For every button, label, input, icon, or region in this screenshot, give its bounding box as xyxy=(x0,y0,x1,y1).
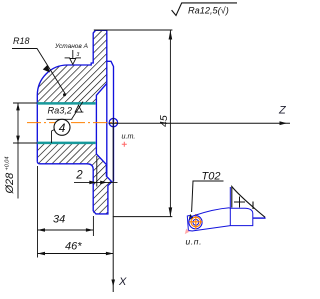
tool crosshair orange xyxy=(191,217,201,227)
svg-text:X: X xyxy=(118,276,127,288)
balloon 4 xyxy=(54,119,70,135)
dim 46 line xyxy=(38,253,114,255)
tool insert circle xyxy=(189,216,202,229)
Ra12,5 general mark xyxy=(172,3,237,16)
dim 2 extension line xyxy=(96,156,98,187)
T02 leader xyxy=(192,181,224,212)
dim 34 extension left xyxy=(37,166,39,236)
centerline orange xyxy=(27,122,117,124)
tool body vertical xyxy=(229,187,231,226)
R18 leader xyxy=(12,49,66,96)
svg-text:и.т.: и.т. xyxy=(122,132,136,141)
svg-text:46*: 46* xyxy=(65,241,82,253)
T02 leader arrowhead xyxy=(189,214,194,221)
dim 46 extension left xyxy=(37,236,39,258)
svg-text:Ra12,5(√): Ra12,5(√) xyxy=(188,6,229,16)
d45 bottom extension xyxy=(113,216,172,218)
dim 34 extension right xyxy=(92,216,94,236)
Z axis xyxy=(109,122,291,124)
X axis xyxy=(112,118,114,292)
dimension d28 line xyxy=(17,103,19,199)
d45 dimension line xyxy=(169,30,171,217)
upper bore cone chamfer xyxy=(96,83,106,154)
boss outline right xyxy=(107,61,114,181)
svg-text:и.п.: и.п. xyxy=(186,237,203,247)
svg-text:Ø28: Ø28 xyxy=(4,172,16,195)
svg-text:34: 34 xyxy=(53,214,65,226)
origin circle node xyxy=(109,118,117,126)
tool holder fin black xyxy=(232,187,265,218)
flange bottom xyxy=(37,161,108,214)
svg-text:2: 2 xyxy=(75,169,83,181)
setup symbol xyxy=(72,50,74,59)
dim 34 line xyxy=(38,229,94,231)
tool tab foot xyxy=(253,217,266,219)
Ra3,2 check symbol xyxy=(72,102,84,120)
bore surface bottom teal xyxy=(37,142,95,145)
lower cone chamfer xyxy=(96,154,111,211)
balloon leader xyxy=(52,130,55,144)
hatch lower body and flange xyxy=(37,144,112,214)
svg-text:Установ А: Установ А xyxy=(54,43,88,50)
svg-text:Ra3,2: Ra3,2 xyxy=(48,105,73,115)
tool body top edge xyxy=(194,208,230,216)
part outline outer upper xyxy=(37,30,107,161)
svg-text:4: 4 xyxy=(59,121,66,135)
Ra3,2 shelf xyxy=(47,118,73,120)
d45 top extension xyxy=(94,29,173,31)
tool cross black xyxy=(234,197,245,208)
dimension d28 extension lines xyxy=(13,102,37,104)
tool tip wedge xyxy=(187,215,192,231)
svg-text:+0,04: +0,04 xyxy=(5,157,11,171)
bore surface top teal xyxy=(37,102,95,105)
tool tip pink arrow xyxy=(185,229,190,235)
svg-text:Z: Z xyxy=(278,105,287,117)
svg-text:45: 45 xyxy=(158,115,170,127)
svg-text:3: 3 xyxy=(77,52,80,58)
flange right face full xyxy=(106,30,108,176)
tool body xyxy=(192,208,253,231)
hatch upper body and flange xyxy=(37,30,107,103)
it point cross red xyxy=(122,142,127,147)
svg-text:R18: R18 xyxy=(13,36,30,46)
dim 2 line with arrows xyxy=(74,181,118,183)
